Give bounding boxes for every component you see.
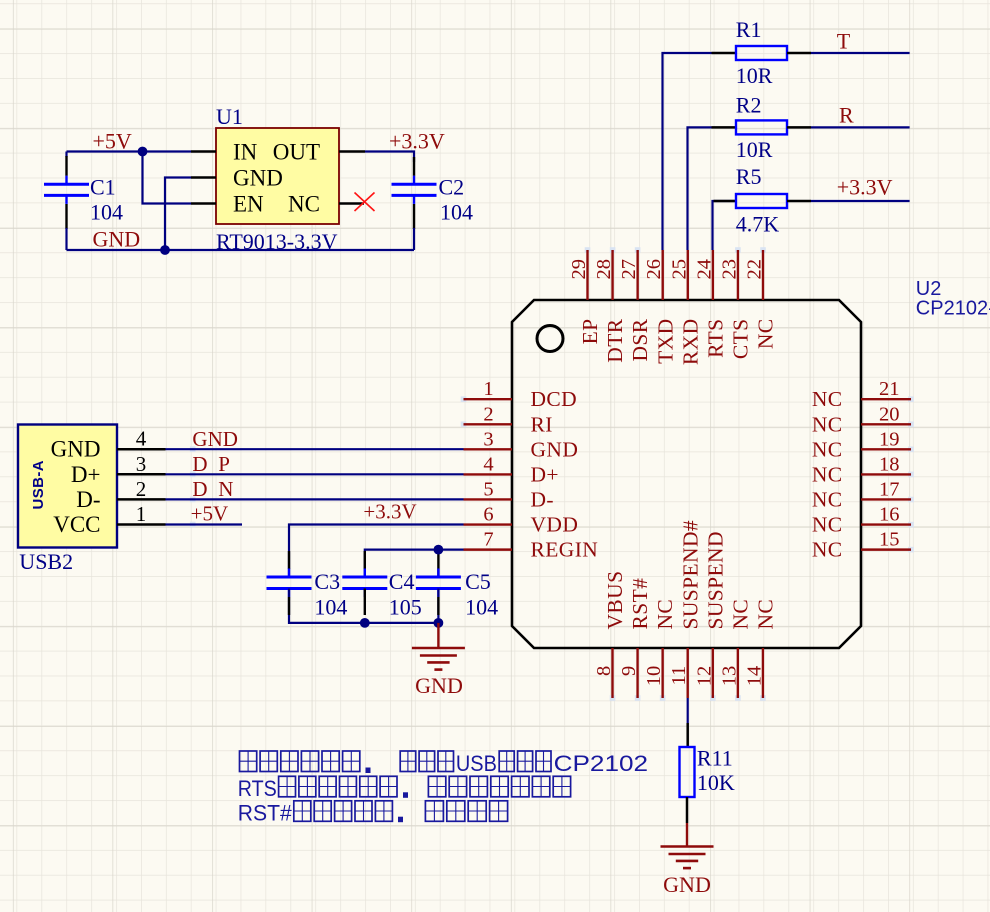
svg-text:GND: GND: [663, 872, 711, 897]
wire R net: [811, 126, 910, 128]
svg-text:R: R: [839, 102, 854, 127]
U1 pin GND: [191, 176, 216, 179]
svg-text:RTS: RTS: [703, 319, 727, 358]
U2 pin 18 NC: [861, 473, 911, 475]
svg-text:NC: NC: [812, 538, 843, 562]
svg-text:SUSPEND: SUSPEND: [703, 531, 727, 629]
U2 pin 21 NC: [861, 398, 911, 400]
svg-text:10K: 10K: [697, 770, 735, 795]
U2 pin 26 TXD: [662, 250, 664, 300]
note line 1 (Chinese): this version has a problem, USB cannot read CP2102 after power-up: [240, 751, 360, 772]
svg-text:CTS: CTS: [729, 319, 753, 360]
svg-text:1: 1: [483, 378, 493, 400]
svg-text:C4: C4: [389, 569, 415, 594]
svg-text:+3.3V: +3.3V: [837, 175, 893, 200]
svg-text:104: 104: [440, 200, 473, 225]
svg-text:8: 8: [593, 666, 615, 676]
connector USB2 body: [18, 425, 117, 548]
svg-text:NC: NC: [812, 487, 843, 511]
wire GND net to U2 pin3: [166, 448, 464, 450]
wire +5V stub from VCC: [166, 523, 243, 525]
svg-text:11: 11: [668, 666, 690, 686]
wire R11 to ground: [686, 797, 689, 823]
gnd rail U1 bottom: [67, 249, 415, 251]
svg-text:104: 104: [314, 595, 347, 620]
U2 pin 6 VDD: [464, 523, 513, 525]
svg-text:RT9013-3.3V: RT9013-3.3V: [216, 229, 338, 254]
svg-text:SUSPEND#: SUSPEND#: [678, 520, 702, 630]
svg-text:NC: NC: [812, 462, 843, 486]
svg-text:2: 2: [483, 403, 493, 425]
svg-text:27: 27: [618, 259, 640, 280]
U2 pin 14 NC: [762, 648, 764, 698]
IC U2 body: [512, 300, 861, 648]
svg-text:EP: EP: [578, 319, 602, 345]
wire C5 top to REGIN: [437, 550, 439, 577]
svg-text:GND: GND: [51, 437, 101, 462]
svg-text:10R: 10R: [736, 137, 773, 162]
svg-text:NC: NC: [812, 412, 843, 436]
svg-text:1: 1: [136, 502, 147, 526]
svg-text:NC: NC: [812, 387, 843, 411]
wire +5V rail to U1 IN: [67, 150, 192, 152]
resistor R2: [712, 126, 737, 129]
svg-text:6: 6: [483, 504, 493, 526]
U2 pin 17 NC: [861, 498, 911, 500]
wire T net: [811, 52, 910, 54]
regulator U1 body: [216, 128, 339, 224]
svg-text:DSR: DSR: [628, 318, 652, 361]
junction C5/REGIN: [434, 545, 444, 555]
U2 pin 9 RST#: [636, 648, 638, 698]
svg-text:23: 23: [718, 259, 740, 280]
svg-text:NC: NC: [812, 437, 843, 461]
wire D_P net to U2 pin4: [166, 473, 464, 475]
svg-text:VCC: VCC: [53, 512, 100, 537]
svg-text:104: 104: [465, 595, 498, 620]
wire D_N net to U2 pin5: [166, 498, 464, 500]
wire +3.3V net (R5): [811, 200, 910, 202]
svg-text:2: 2: [136, 477, 147, 501]
svg-text:24: 24: [693, 259, 715, 280]
svg-text:C1: C1: [90, 175, 116, 200]
svg-text:NC: NC: [812, 513, 843, 537]
USB2 pin 2 D-: [117, 498, 166, 501]
U2 pin 25 RXD: [687, 250, 689, 300]
svg-text:+5V: +5V: [93, 129, 132, 154]
svg-text:10R: 10R: [736, 63, 773, 88]
svg-text:R2: R2: [736, 93, 762, 118]
svg-text:GND: GND: [192, 427, 238, 451]
wire TXD riser to R1: [663, 53, 712, 250]
svg-text:R11: R11: [697, 745, 733, 770]
svg-text:+3.3V: +3.3V: [363, 499, 416, 523]
svg-text:12: 12: [693, 666, 715, 687]
svg-text:3: 3: [483, 428, 493, 450]
junction C4 bottom: [360, 618, 370, 628]
svg-text:TXD: TXD: [653, 319, 677, 364]
U2 pin 1 DCD: [464, 398, 513, 400]
svg-text:GND: GND: [233, 166, 283, 191]
svg-text:4.7K: 4.7K: [736, 212, 780, 237]
ground symbol (C5): [437, 623, 439, 648]
svg-text:USB-A: USB-A: [30, 460, 47, 510]
svg-text:CP2102: CP2102: [554, 751, 649, 776]
U2 pin 10 NC: [661, 648, 663, 698]
svg-text:RTS: RTS: [238, 776, 277, 801]
svg-text:C3: C3: [314, 569, 340, 594]
capacitor C4: [342, 569, 387, 598]
ground symbol (R11): [661, 847, 714, 869]
svg-text:22: 22: [743, 259, 765, 280]
svg-text:14: 14: [743, 666, 765, 687]
svg-text:RST#: RST#: [238, 800, 293, 825]
svg-text:10: 10: [643, 666, 665, 687]
junction +5V/EN: [138, 147, 148, 157]
wire U1 OUT to C2: [365, 152, 414, 163]
USB2 pin 3 D+: [117, 473, 166, 476]
U2 pin 29 EP: [586, 250, 588, 300]
svg-text:NC: NC: [754, 319, 778, 350]
svg-text:GND: GND: [93, 227, 141, 252]
svg-text:4: 4: [136, 427, 147, 451]
U1 pin OUT: [339, 150, 365, 153]
svg-text:9: 9: [618, 666, 640, 676]
wire REGIN pin7 to C4/C5: [365, 550, 464, 577]
svg-text:EN: EN: [233, 192, 264, 217]
U2 pin 24 RTS: [712, 250, 714, 300]
wire EN tie to +5V: [143, 152, 192, 204]
dangling endpoint markers: [190, 247, 914, 701]
svg-text:17: 17: [879, 478, 900, 500]
svg-text:16: 16: [879, 504, 900, 526]
svg-text:D: D: [192, 452, 207, 476]
svg-text:DTR: DTR: [603, 318, 627, 362]
capacitor C3: [267, 569, 312, 598]
U1 pin NC: [339, 202, 364, 205]
svg-text:25: 25: [668, 259, 690, 280]
svg-text:CP2102-G: CP2102-G: [916, 298, 990, 320]
svg-text:P: P: [218, 452, 230, 476]
svg-text:NC: NC: [728, 599, 752, 630]
wire +3.3V to VDD pin6: [289, 525, 464, 578]
svg-text:D+: D+: [71, 462, 101, 487]
svg-text:USB: USB: [456, 751, 497, 776]
resistor R5: [736, 194, 787, 208]
svg-text:7: 7: [483, 529, 493, 551]
U2 pin 12 SUSPEND: [712, 648, 714, 698]
svg-text:OUT: OUT: [273, 140, 320, 165]
svg-text:15: 15: [879, 529, 900, 551]
U2 pin 27 DSR: [636, 250, 638, 300]
U2 pin 16 NC: [861, 523, 911, 525]
U2 pin 11 SUSPEND#: [687, 648, 689, 698]
U2 pin 2 RI: [464, 423, 513, 425]
U2 pin1 indicator circle: [537, 326, 563, 352]
junction gnd rail: [160, 245, 170, 255]
svg-text:RI: RI: [531, 412, 553, 436]
svg-text:GND: GND: [531, 437, 579, 461]
U2 pin 28 DTR: [611, 250, 613, 300]
svg-text:R5: R5: [736, 164, 762, 189]
U2 pin 7 REGIN: [464, 548, 513, 550]
svg-text:5: 5: [483, 478, 493, 500]
U2 pin 4 D+: [464, 473, 513, 475]
U2 pin 22 NC: [762, 250, 764, 300]
svg-text:N: N: [218, 477, 233, 501]
svg-text:D+: D+: [531, 462, 559, 486]
resistor R11: [680, 747, 695, 797]
wire U1 GND to bottom rail: [165, 178, 191, 251]
svg-text:GND: GND: [415, 673, 463, 698]
capacitor C1 lower lead: [65, 204, 67, 229]
gnd rail under C3 C4 C5: [289, 589, 438, 623]
svg-text:U1: U1: [216, 104, 243, 129]
USB2 pin 1 VCC: [117, 523, 166, 526]
svg-text:20: 20: [879, 403, 900, 425]
svg-text:NC: NC: [653, 599, 677, 630]
svg-text:13: 13: [718, 666, 740, 687]
svg-text:28: 28: [593, 259, 615, 280]
capacitor C2: [413, 157, 415, 176]
svg-text:21: 21: [879, 378, 900, 400]
svg-text:3: 3: [136, 452, 147, 476]
svg-text:DCD: DCD: [531, 387, 578, 411]
no-connect X on U1 NC: [355, 193, 375, 212]
wire RTS riser to R5: [713, 201, 737, 250]
svg-text:RXD: RXD: [678, 319, 702, 366]
svg-text:4: 4: [483, 453, 493, 475]
U2 pin 19 NC: [861, 448, 911, 450]
svg-text:+3.3V: +3.3V: [389, 129, 445, 154]
U2 pin 20 NC: [861, 423, 911, 425]
U2 pin 5 D-: [464, 498, 513, 500]
U2 pin 3 GND: [464, 448, 513, 450]
svg-text:NC: NC: [288, 192, 320, 217]
svg-text:T: T: [837, 29, 851, 54]
svg-text:R1: R1: [736, 17, 762, 42]
U1 pin EN: [191, 202, 216, 205]
U1 pin IN: [191, 150, 216, 153]
svg-text:VDD: VDD: [531, 513, 579, 537]
resistor R1: [712, 52, 737, 55]
capacitor C5: [416, 569, 461, 598]
svg-text:104: 104: [90, 200, 123, 225]
svg-text:REGIN: REGIN: [531, 538, 599, 562]
svg-text:26: 26: [643, 259, 665, 280]
svg-text:105: 105: [389, 595, 422, 620]
svg-text:D-: D-: [531, 487, 555, 511]
svg-text:18: 18: [879, 453, 900, 475]
svg-text:USB2: USB2: [19, 549, 73, 574]
svg-text:IN: IN: [233, 140, 258, 165]
USB2 pin 4 GND: [117, 448, 166, 451]
svg-text:NC: NC: [754, 599, 778, 630]
U2 pin 23 CTS: [737, 250, 739, 300]
svg-text:C2: C2: [439, 175, 465, 200]
wire RXD riser to R2: [688, 127, 712, 250]
svg-text:19: 19: [879, 428, 900, 450]
capacitor C1: [65, 152, 67, 158]
U2 pin 15 NC: [861, 548, 911, 550]
U2 pin 8 VBUS: [611, 648, 613, 698]
U2 pin 13 NC: [737, 648, 739, 698]
svg-text:C5: C5: [465, 569, 491, 594]
svg-text:+5V: +5V: [191, 502, 229, 526]
junction C5 bottom: [434, 618, 444, 628]
svg-text:VBUS: VBUS: [603, 571, 627, 630]
wire U2 pin11 to R11: [687, 698, 689, 723]
svg-text:RST#: RST#: [628, 578, 652, 630]
svg-text:29: 29: [568, 259, 590, 280]
capacitor C2 lower lead: [413, 204, 415, 229]
svg-text:D: D: [192, 477, 207, 501]
svg-text:D-: D-: [76, 487, 100, 512]
